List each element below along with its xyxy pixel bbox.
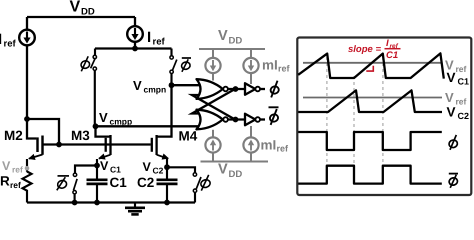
svg-text:DD: DD <box>229 169 243 180</box>
svg-text:M2: M2 <box>4 128 23 143</box>
switch phibar (top right) <box>170 49 177 86</box>
current source mIref bottom right <box>243 126 258 162</box>
svg-text:I: I <box>0 31 2 48</box>
nor gate lower <box>197 110 228 130</box>
svg-text:DD: DD <box>229 36 243 47</box>
svg-text:V: V <box>447 105 456 120</box>
waveform phibar <box>298 166 442 184</box>
svg-text:V: V <box>218 162 228 178</box>
inverter upper <box>245 83 265 95</box>
svg-text:C2: C2 <box>137 175 154 190</box>
label phibar (top right switch) <box>181 58 191 72</box>
label phi output <box>270 81 280 98</box>
node Vcmpn <box>133 78 174 95</box>
svg-text:V: V <box>99 110 108 125</box>
label phibar row4 <box>448 174 458 188</box>
wire VDD rail top <box>27 16 135 18</box>
switch phi (top left) <box>91 49 97 127</box>
node VC2 <box>143 160 170 176</box>
waveform VC1 sawtooth <box>298 53 444 78</box>
svg-text:C1: C1 <box>458 77 470 87</box>
label mIref bottom <box>261 138 290 154</box>
node A wire (Iref1 to bias line) <box>24 116 59 144</box>
svg-text:ref: ref <box>456 64 467 74</box>
svg-text:R: R <box>0 174 10 189</box>
current source Iref1 <box>19 17 35 45</box>
label VC1 row1 <box>447 70 470 87</box>
node junction under Iref2 <box>132 46 138 52</box>
wire nor lower output <box>228 117 245 123</box>
svg-text:cmpn: cmpn <box>144 85 167 95</box>
wire Vcmpp to latch <box>96 125 201 127</box>
svg-text:slope =: slope = <box>348 44 381 55</box>
switch phibar (bottom left) <box>72 166 97 206</box>
node bias junction <box>56 142 62 148</box>
capacitor C2 <box>157 167 178 205</box>
node VC1 <box>94 159 121 175</box>
label phibar (bottom left switch) <box>57 176 69 190</box>
dashed gridline 3 <box>382 57 384 165</box>
gray Vref level line 1 <box>303 62 443 64</box>
svg-text:C2: C2 <box>153 166 164 176</box>
red slope indicator <box>366 66 373 71</box>
current source mIref top right <box>243 49 258 84</box>
svg-text:ref: ref <box>277 144 290 154</box>
gray Vref level line 2 <box>303 97 442 99</box>
dashed gridline 1 <box>326 57 328 165</box>
svg-text:M3: M3 <box>71 128 90 143</box>
svg-text:I: I <box>147 29 151 46</box>
waveform phi <box>298 132 442 150</box>
svg-text:V: V <box>445 90 454 105</box>
transistor M2 <box>27 119 43 172</box>
svg-text:V: V <box>70 0 81 16</box>
waveform VC2 sawtooth <box>298 90 442 112</box>
label VDD gray top <box>218 28 242 47</box>
wire bias line <box>43 143 151 145</box>
svg-text:C1: C1 <box>110 165 121 175</box>
svg-text:V: V <box>2 159 11 173</box>
svg-text:C2: C2 <box>458 111 470 121</box>
wire gray VDD rail top <box>199 48 265 50</box>
node Vref <box>2 159 29 175</box>
label VC2 row2 <box>447 105 470 122</box>
label phi row3 <box>448 135 458 150</box>
label phibar output <box>269 107 279 125</box>
label Vref row1 <box>445 58 467 75</box>
svg-text:V: V <box>218 28 228 44</box>
current source mIref top left <box>205 49 220 81</box>
wire Iref1 to node A <box>26 45 28 119</box>
svg-text:mI: mI <box>262 58 278 73</box>
wire Vcmpn to latch <box>172 84 201 86</box>
svg-text:ref: ref <box>12 165 23 175</box>
current source Iref2 <box>127 17 143 49</box>
svg-text:V: V <box>447 70 456 85</box>
svg-text:ref: ref <box>456 97 467 107</box>
svg-text:ref: ref <box>153 37 166 48</box>
label phi (top left switch) <box>80 56 90 71</box>
svg-text:cmpp: cmpp <box>110 117 133 127</box>
wire switch rail <box>95 47 172 49</box>
node Vcmpp <box>93 110 133 129</box>
svg-text:C1: C1 <box>110 175 128 190</box>
label Vref row2 <box>445 90 467 107</box>
svg-text:C1: C1 <box>386 50 398 61</box>
svg-text:V: V <box>133 78 142 93</box>
switch phi (bottom right) <box>167 167 201 202</box>
svg-text:ref: ref <box>4 39 17 50</box>
wire feedback upper to lower <box>192 89 235 114</box>
wire ground rail <box>27 201 195 203</box>
ground <box>125 203 145 215</box>
panel box <box>297 38 471 196</box>
wire nor upper output <box>228 86 245 92</box>
resistor Rref <box>0 172 32 203</box>
label Iref1 <box>0 31 16 50</box>
inverter lower <box>245 114 265 126</box>
dashed gridline 2 <box>353 76 355 165</box>
red annotation slope <box>348 38 401 61</box>
transistor M4 <box>152 85 172 167</box>
svg-text:mI: mI <box>261 138 277 153</box>
svg-text:ref: ref <box>10 180 21 190</box>
current source mIref bottom left <box>205 130 220 162</box>
svg-text:M4: M4 <box>179 129 198 144</box>
capacitor C1 <box>87 166 108 206</box>
nor gate upper <box>197 79 228 99</box>
label phi (bottom right switch) <box>200 175 211 191</box>
label Iref2 <box>147 29 165 48</box>
transistor M3 <box>96 126 111 165</box>
svg-text:V: V <box>143 160 152 174</box>
wire feedback lower to upper <box>192 95 235 120</box>
svg-text:V: V <box>100 159 109 173</box>
node VDD label top <box>70 0 95 18</box>
label VDD gray bottom <box>218 162 242 181</box>
label mIref top <box>262 58 291 74</box>
wire gray VDD rail bottom <box>201 161 269 163</box>
svg-text:ref: ref <box>278 64 291 74</box>
